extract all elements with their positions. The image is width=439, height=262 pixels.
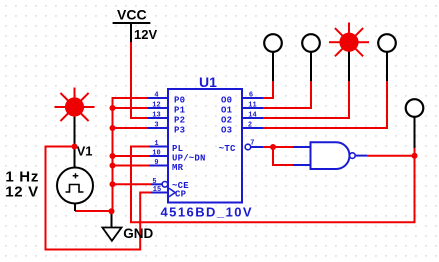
svg-text:5: 5 [152,178,156,186]
svg-text:12V: 12V [134,27,157,42]
svg-text:10: 10 [152,150,160,158]
svg-text:O1: O1 [221,106,233,116]
svg-text:O3: O3 [221,126,232,136]
svg-text:GND: GND [123,226,153,241]
svg-text:MR: MR [172,163,184,173]
svg-text:2: 2 [248,122,252,130]
svg-text:~TC: ~TC [219,144,236,154]
svg-text:4: 4 [154,92,158,100]
svg-text:P0: P0 [174,96,185,106]
svg-text:7: 7 [250,140,254,148]
svg-text:1: 1 [154,140,158,148]
svg-text:13: 13 [152,112,160,120]
svg-text:P3: P3 [174,126,185,136]
svg-text:V1: V1 [77,144,93,159]
svg-text:P1: P1 [174,106,186,116]
svg-text:12 V: 12 V [5,184,39,201]
svg-text:11: 11 [248,102,256,110]
svg-text:PL: PL [172,144,183,154]
svg-text:3: 3 [154,122,158,130]
svg-text:U1: U1 [199,74,217,90]
svg-text:12: 12 [152,102,160,110]
svg-text:O0: O0 [221,96,232,106]
svg-text:15: 15 [153,186,161,194]
svg-text:14: 14 [248,112,256,120]
svg-text:6: 6 [249,92,253,100]
svg-text:9: 9 [154,159,158,167]
svg-text:O2: O2 [221,116,232,126]
svg-text:P2: P2 [174,116,185,126]
svg-text:4516BD_10V: 4516BD_10V [161,205,254,220]
svg-text:CP: CP [175,190,187,200]
svg-text:VCC: VCC [117,7,147,23]
svg-text:UP/~DN: UP/~DN [172,154,206,164]
